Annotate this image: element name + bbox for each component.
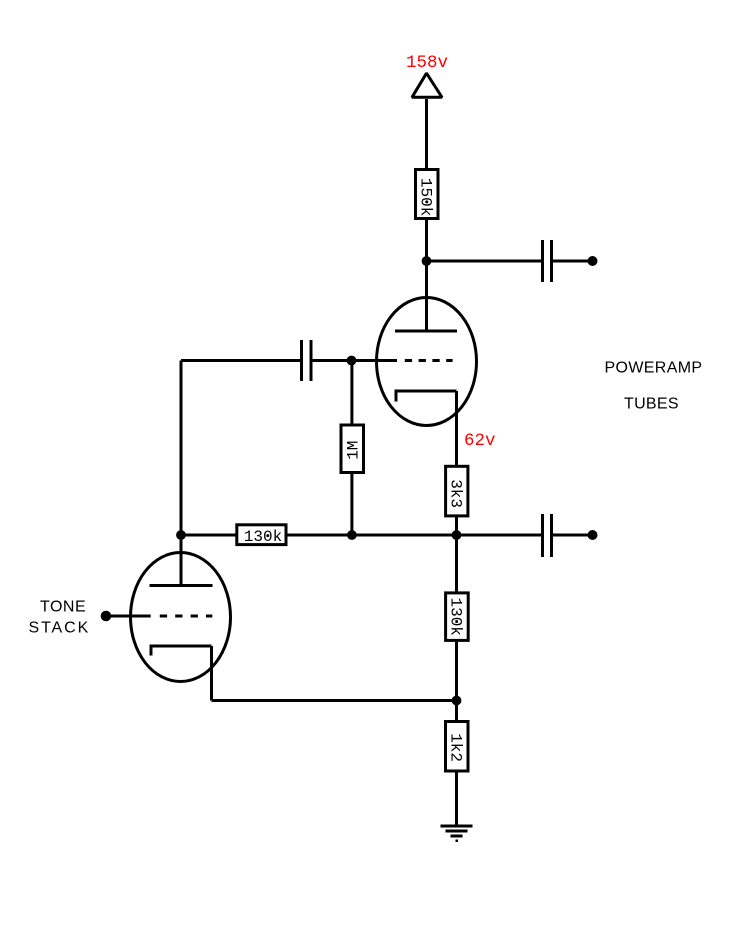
svg-text:1k2: 1k2: [447, 733, 465, 762]
wire node B2 to node D: [352, 534, 457, 537]
svg-text:158v: 158v: [406, 53, 448, 73]
wire node B to V1 grid: [352, 359, 398, 362]
wire R 3k3 to node D: [455, 516, 458, 535]
node A (junction dot): [422, 256, 432, 266]
V2 plate lead: [180, 535, 183, 586]
svg-text:3k3: 3k3: [446, 479, 464, 508]
wire tone stack terminal to V2 grid: [107, 615, 151, 618]
V1 cathode lead: [455, 391, 458, 467]
V2 cathode lead: [210, 646, 213, 701]
svg-text:150k: 150k: [416, 178, 434, 216]
capacitor C1 (left plate): [541, 240, 544, 282]
resistor 1M: [341, 425, 364, 473]
node E (junction dot): [452, 696, 462, 706]
wire node E to R 1k2: [455, 701, 458, 722]
wire down left side: [180, 361, 183, 536]
wire corner to C2: [181, 359, 300, 362]
tube V2 envelope (lower triode): [131, 553, 231, 682]
wire node B to R 1M: [350, 361, 353, 426]
V1 cathode: [396, 391, 457, 402]
label 1M: [345, 441, 363, 460]
wire R 130k to node E: [455, 640, 458, 700]
label 3k3: [446, 479, 464, 508]
svg-text:62v: 62v: [464, 431, 496, 451]
svg-text:1M: 1M: [345, 441, 363, 460]
terminal dot (C3 output): [588, 530, 598, 540]
wire V2 cathode to node E: [212, 699, 457, 702]
V1 plate lead: [425, 261, 428, 331]
label 150k: [416, 178, 434, 216]
wire C1 to terminal: [553, 260, 588, 263]
wire node A to capacitor C1: [427, 260, 542, 263]
label 130k: [244, 528, 282, 546]
V1 grid (dashed): [405, 359, 453, 362]
wire C3 to terminal: [553, 534, 588, 537]
wire node D to R 130k: [455, 535, 458, 593]
power supply symbol (triangle): [412, 73, 442, 97]
resistor 130k (horizontal): [237, 525, 286, 545]
capacitor C3 (right plate): [550, 514, 553, 557]
capacitor C2 (left plate): [300, 340, 303, 381]
label 1k2: [447, 733, 465, 762]
wire R 1k2 to ground: [455, 771, 458, 825]
svg-text:STACK: STACK: [29, 620, 91, 637]
wire R 130k to node B2: [286, 534, 352, 537]
terminal dot (C1 output): [588, 256, 598, 266]
svg-text:TONE: TONE: [40, 599, 86, 616]
wire C2 to node B: [313, 359, 352, 362]
node B2 (junction dot): [347, 530, 357, 540]
wire node D to capacitor C3: [457, 534, 542, 537]
node B (junction dot): [347, 356, 357, 366]
svg-text:130k: 130k: [446, 598, 464, 636]
node D (junction dot): [452, 530, 462, 540]
svg-text:130k: 130k: [244, 528, 282, 546]
V2 plate: [150, 584, 213, 587]
node C (junction dot): [176, 530, 186, 540]
resistor 1k2: [446, 722, 469, 772]
resistor 3k3: [446, 466, 468, 516]
V2 grid (dashed): [160, 615, 213, 618]
wire node C to R 130k: [181, 534, 236, 537]
label 130k vertical: [446, 598, 464, 636]
svg-text:POWERAMP: POWERAMP: [605, 360, 703, 377]
capacitor C3 (left plate): [541, 514, 544, 557]
wire supply to R 150k: [425, 99, 428, 169]
ground: [441, 825, 473, 843]
capacitor C2 (coupling, right plate): [310, 340, 313, 381]
V1 plate: [395, 330, 457, 333]
V2 cathode: [151, 646, 212, 656]
wire R 1M to bus: [350, 473, 353, 536]
tube V1 envelope (upper triode): [377, 298, 477, 426]
terminal dot (tone stack input): [101, 611, 112, 622]
svg-text:TUBES: TUBES: [624, 396, 679, 413]
resistor 150k: [416, 170, 439, 219]
resistor 130k (vertical): [446, 593, 469, 641]
wire R 150k to node A: [425, 219, 428, 262]
capacitor C1 (right plate): [550, 240, 553, 282]
